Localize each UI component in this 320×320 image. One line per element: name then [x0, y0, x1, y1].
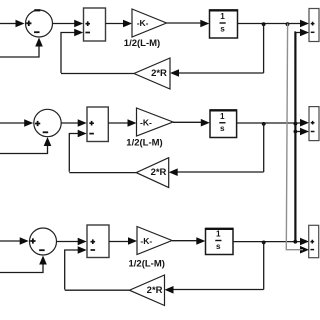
right sum block row1 (+,-)	[309, 9, 319, 42]
svg-text:s: s	[220, 24, 225, 33]
bus B wire: row3 output up to row1 - port	[294, 33, 297, 242]
junction dot bus B branch row2	[294, 130, 298, 134]
integrator block row1 1/s	[209, 10, 238, 38]
junction dot row1 feedback tap	[262, 22, 266, 26]
integrator block row3 1/s	[205, 229, 233, 255]
sum junction circle row1 (+,-)	[26, 9, 53, 37]
arrowhead into sum block row1 - port	[74, 29, 83, 37]
arrowhead into 2*R gain row2	[169, 168, 178, 176]
wire row3 2*R output back left	[65, 289, 130, 291]
right sum block row2 (+,-)	[309, 107, 319, 141]
gain block row3 -K-	[137, 227, 172, 255]
arrowhead into sum block row3 + port	[78, 238, 87, 246]
wire row1 integrator output to right sum block	[238, 23, 304, 25]
svg-text:-K-: -K-	[140, 117, 152, 127]
wire row1 lower input from left edge up to sum junction	[0, 46, 39, 57]
arrowhead into sum block row2 + port	[78, 119, 87, 127]
wire row2 input	[0, 122, 25, 124]
wire row1 feedback from 2*R gain up into sum block - port	[61, 33, 77, 74]
junction dot row2 line crossing bus B	[294, 122, 298, 126]
gain block row2 -K-	[137, 108, 174, 136]
arrowhead into integrator row1	[200, 20, 209, 28]
arrowhead into gain block row3	[128, 237, 137, 245]
junction dot row1 output onto bus A	[286, 22, 290, 26]
svg-text:s: s	[220, 124, 225, 133]
sum junction circle row2 (+,-)	[34, 109, 61, 136]
wire row3 sum block to gain	[109, 241, 131, 243]
wire row2 sum block to gain	[108, 122, 130, 124]
wire row3 gain to integrator	[172, 240, 200, 242]
wire row3 lower input from left edge up to sum junction	[0, 264, 43, 273]
wire row2 2*R output back left	[69, 172, 136, 174]
wire bus B branch into row2 - port	[295, 131, 303, 133]
svg-text:1/2(L-M): 1/2(L-M)	[126, 137, 162, 148]
feedback gain block row2 2*R	[136, 158, 169, 188]
wire row2 sum junction to sum block	[61, 122, 80, 124]
wire row1 gain to integrator	[167, 22, 204, 24]
arrowhead row3 input into sum junction	[20, 237, 29, 245]
arrowhead into gain block row1	[123, 20, 132, 28]
arrowhead into 2*R gain row1	[170, 69, 179, 77]
arrowhead into right sum block row2 - port	[300, 128, 309, 136]
arrowhead into sum block row3 - port	[78, 246, 87, 254]
svg-text:s: s	[216, 242, 221, 251]
wire row2 into 2*R gain	[176, 171, 264, 173]
right sum block row3 (+,-)	[309, 225, 319, 257]
svg-text:2*R: 2*R	[151, 68, 167, 79]
arrowhead row2 lower input (up into sum junction)	[44, 137, 52, 146]
svg-text:1: 1	[216, 230, 221, 239]
sum block row3 (+,-)	[87, 225, 109, 258]
arrowhead into right sum block row2 + port	[300, 119, 309, 127]
sum junction circle row3 (+,-)	[30, 228, 57, 255]
wire bus B branch into row1 - port	[295, 32, 303, 34]
wire row1 2*R output back left	[61, 73, 134, 75]
sum block row2 (+,-)	[87, 107, 108, 142]
arrowhead row3 lower input (up into sum junction)	[39, 256, 47, 265]
arrowhead into right sum block row1 - port	[300, 29, 309, 37]
wire row2 feedback from 2*R gain up into sum block - port	[69, 134, 80, 172]
wire row3 feedback from 2*R gain up into sum block - port	[65, 250, 81, 290]
svg-text:1: 1	[220, 112, 225, 121]
svg-text:-K-: -K-	[137, 18, 149, 28]
arrowhead into sum block row2 - port	[78, 130, 87, 138]
wire row3 sum junction to sum block	[57, 241, 81, 243]
svg-text:-K-: -K-	[140, 236, 152, 246]
svg-text:1/2(L-M): 1/2(L-M)	[128, 258, 164, 269]
wire row2 integrator output to right sum block	[237, 122, 303, 124]
svg-text:2*R: 2*R	[147, 285, 163, 296]
gain block row1 -K-	[132, 9, 167, 37]
junction dot row2 feedback tap	[262, 122, 266, 126]
wire row1 feedback drop	[263, 24, 265, 74]
wire row2 feedback drop	[263, 123, 265, 172]
wire row3 input	[0, 240, 21, 242]
wire row1 into 2*R gain	[176, 72, 264, 74]
wire row1 input	[0, 23, 16, 25]
feedback gain block row3 2*R	[129, 275, 164, 306]
arrowhead row1 lower input (up into sum junction)	[35, 38, 43, 47]
arrowhead into right sum block row1 + port	[300, 20, 309, 28]
wire row3 feedback drop	[263, 242, 265, 290]
wire row2 gain to integrator	[173, 121, 204, 123]
wire row1 sum block to gain	[106, 23, 127, 25]
arrowhead into 2*R gain row3	[165, 286, 174, 294]
arrowhead row2 input into sum junction	[24, 119, 33, 127]
arrowhead into right sum block row3 - port (from bus A)	[300, 246, 309, 254]
junction dot row3 feedback tap	[262, 241, 266, 245]
arrowhead row1 input into sum junction	[16, 20, 25, 28]
sum block row1 (+,-)	[84, 8, 106, 41]
junction dot row3 output joins bus B	[293, 240, 297, 244]
arrowhead into gain block row2	[128, 119, 137, 127]
arrowhead into integrator row2	[201, 119, 210, 127]
bus A wire: row1 output down to row3 - port	[286, 24, 303, 250]
wire row3 integrator output to right sum block	[233, 241, 303, 243]
arrowhead into sum block row1 + port	[74, 20, 83, 28]
integrator block row2 1/s	[210, 110, 237, 138]
arrowhead into integrator row3	[196, 237, 205, 245]
svg-text:1: 1	[220, 12, 225, 21]
wire row2 lower input from left edge up to sum junction	[0, 146, 48, 154]
svg-text:2*R: 2*R	[151, 167, 167, 178]
wire row1 sum junction to sum block	[53, 23, 78, 25]
feedback gain block row1 2*R	[134, 58, 170, 89]
wire row3 into 2*R gain	[172, 289, 264, 291]
svg-text:1/2(L-M): 1/2(L-M)	[124, 38, 160, 49]
arrowhead into right sum block row3 + port	[300, 238, 309, 246]
